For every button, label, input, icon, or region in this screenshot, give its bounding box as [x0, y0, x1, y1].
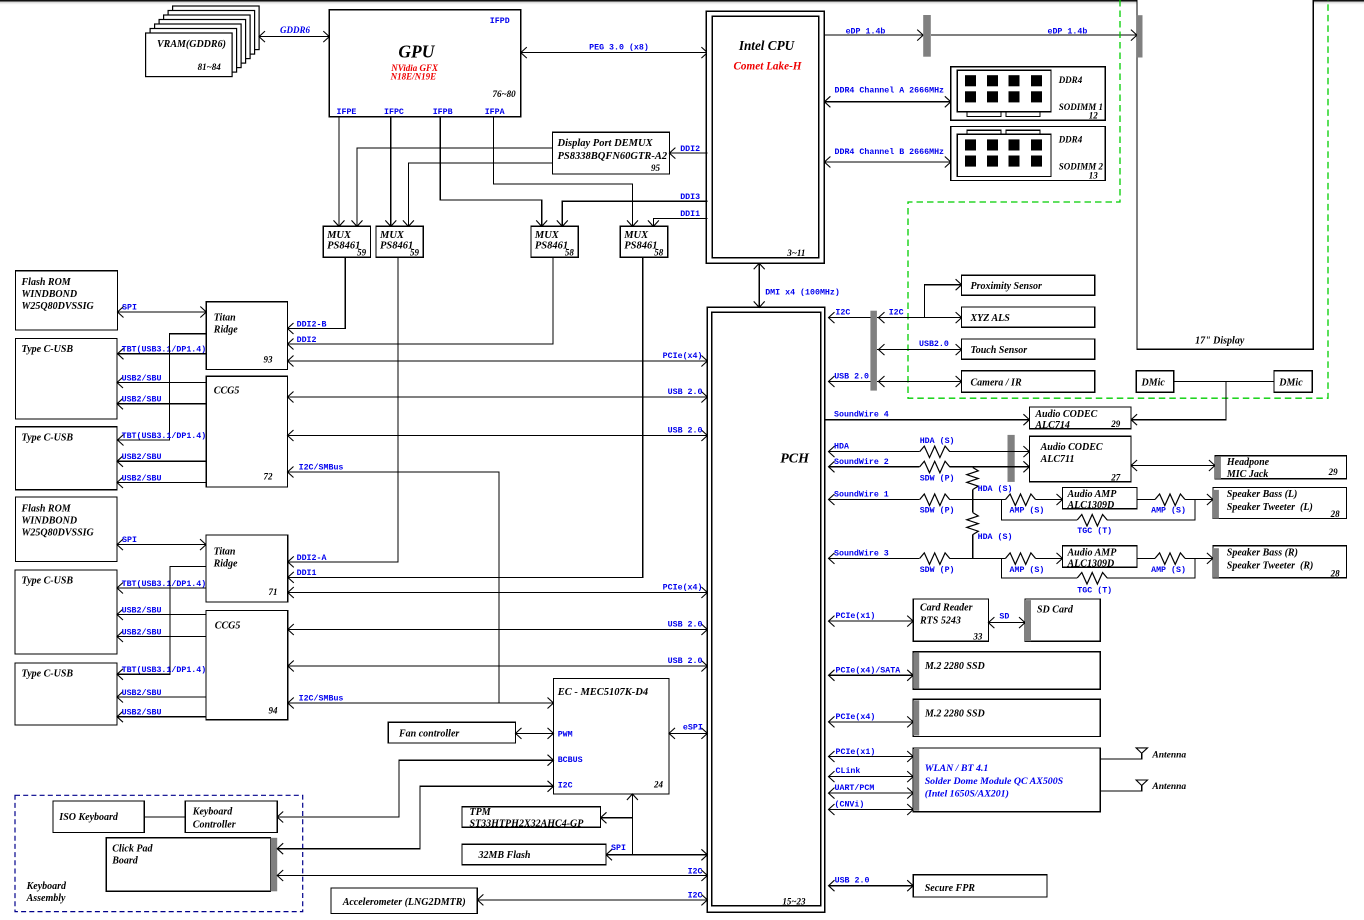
svg-text:PCIe(x1): PCIe(x1)	[836, 747, 876, 757]
wire AudioAMP L-Speaker L with resistor AMP (S)	[1137, 494, 1213, 516]
svg-text:Comet Lake-H: Comet Lake-H	[733, 61, 801, 73]
wire DDI1 MUX4 to Titan Ridge 2	[288, 257, 643, 583]
svg-text:Type C-USB: Type C-USB	[22, 432, 74, 443]
wire DDR4 Channel B 2666MHz	[824, 147, 950, 168]
svg-text:27: 27	[1110, 473, 1121, 483]
svg-text:USB2/SBU: USB2/SBU	[122, 688, 162, 698]
wire TBT(USB3.1/DP1.4) TypeC3-TitanRidge2	[117, 579, 206, 594]
svg-text:IFPB: IFPB	[433, 108, 453, 117]
wire SoundWire 4 PCH-ALC714	[825, 409, 1030, 425]
svg-text:SoundWire 3: SoundWire 3	[834, 548, 889, 558]
Proximity Sensor	[962, 275, 1095, 295]
svg-text:I2C: I2C	[688, 867, 703, 876]
svg-text:WLAN / BT 4.1: WLAN / BT 4.1	[925, 763, 989, 774]
svg-text:DMic: DMic	[1141, 378, 1166, 389]
connector bar eDP	[923, 15, 931, 57]
svg-text:PWM: PWM	[558, 730, 573, 739]
svg-text:17" Display: 17" Display	[1195, 336, 1245, 347]
svg-text:Speaker Tweeter (R): Speaker Tweeter (R)	[1227, 560, 1314, 571]
svg-text:SDW (P): SDW (P)	[920, 565, 955, 575]
svg-text:33: 33	[972, 632, 983, 642]
svg-text:Flash ROM: Flash ROM	[21, 277, 72, 288]
svg-text:USB 2.0: USB 2.0	[668, 426, 703, 435]
MUX PS8461 #1 59	[323, 226, 370, 257]
Titan Ridge 1 93	[206, 302, 287, 370]
wire TBT(USB3.1/DP1.4) TypeC4-TitanRidge2	[117, 567, 206, 680]
Display Port DEMUX PS8338BQFN60GTR-A2 95	[553, 132, 670, 174]
svg-text:TBT(USB3.1/DP1.4): TBT(USB3.1/DP1.4)	[122, 665, 207, 675]
connector bar display eDP	[1137, 15, 1143, 57]
wire DDI2-A MUX2 to Titan Ridge 2	[288, 257, 398, 567]
wire SoundWire 3 PCH-AudioAMP R with resistors	[829, 548, 1063, 574]
svg-text:N18E/N19E: N18E/N19E	[390, 72, 437, 82]
GPU NVidia GFX N18E/N19E 76~80	[329, 10, 521, 117]
wire DDI2-B MUX1 to Titan Ridge 1	[288, 257, 346, 334]
wire HDA PCH-ALC711 with resistor HDA (S)	[829, 436, 1030, 457]
Speaker Bass (R) Speaker Tweeter (R) 28	[1213, 546, 1347, 579]
svg-text:DDR4 Channel A 2666MHz: DDR4 Channel A 2666MHz	[835, 86, 945, 96]
svg-text:TGC (T): TGC (T)	[1077, 526, 1112, 536]
svg-text:12: 12	[1089, 111, 1099, 121]
svg-text:TPM: TPM	[470, 807, 492, 818]
Audio AMP ALC1309D left	[1063, 488, 1138, 512]
wire PCIe(x4) TitanRidge1-PCH	[288, 351, 708, 367]
wire I2C Click Pad-PCH	[277, 867, 707, 881]
svg-text:ALC1309D: ALC1309D	[1067, 558, 1115, 569]
display assembly dashed enclosure	[908, 0, 1328, 398]
wire USB2/SBU TypeC2-CCG5 a	[117, 452, 206, 467]
svg-text:I2C: I2C	[835, 308, 850, 317]
svg-text:SD: SD	[999, 613, 1009, 622]
Accelerometer (LNG2DMTR)	[331, 888, 477, 914]
svg-text:(CNVi): (CNVi)	[835, 800, 865, 810]
Fan controller	[388, 722, 515, 743]
svg-text:PCIe(x1): PCIe(x1)	[836, 611, 876, 621]
wire IFPE to MUX1	[338, 117, 340, 227]
svg-text:MUX: MUX	[379, 230, 405, 241]
svg-text:Keyboard: Keyboard	[192, 806, 233, 817]
Flash ROM WINDBOND W25Q80DVSSIG #2	[15, 497, 117, 562]
wire UART/PCM PCH-WLAN	[829, 783, 914, 799]
svg-text:VRAM(GDDR6): VRAM(GDDR6)	[157, 39, 226, 50]
Titan Ridge 2 71	[206, 535, 288, 602]
svg-text:PCH: PCH	[780, 451, 810, 466]
svg-text:Type C-USB: Type C-USB	[22, 576, 74, 587]
svg-text:13: 13	[1089, 170, 1099, 180]
17 inch Display panel	[1137, 0, 1313, 349]
svg-text:USB 2.0: USB 2.0	[835, 876, 870, 885]
svg-text:DDI3: DDI3	[680, 193, 700, 202]
svg-text:15~23: 15~23	[782, 896, 806, 906]
wire USB2/SBU TypeC3-CCG5-2 a	[117, 605, 206, 620]
antenna 1	[1100, 748, 1186, 760]
Audio AMP ALC1309D right	[1063, 546, 1138, 570]
svg-text:SPI: SPI	[122, 303, 137, 312]
svg-text:SDW (P): SDW (P)	[920, 474, 955, 484]
wire DMic pair to Audio CODEC ALC714	[1131, 382, 1274, 426]
svg-text:Proximity Sensor: Proximity Sensor	[971, 281, 1043, 292]
svg-text:AMP (S): AMP (S)	[1151, 565, 1186, 575]
svg-text:TBT(USB3.1/DP1.4): TBT(USB3.1/DP1.4)	[122, 345, 207, 355]
svg-text:RTS 5243: RTS 5243	[919, 615, 961, 626]
wire IFPB to MUX3	[440, 117, 542, 227]
wire BCBUS Keyboard Controller-EC	[277, 755, 553, 823]
svg-text:Assembly: Assembly	[26, 893, 66, 904]
window top border	[0, 0, 1364, 2]
TPM ST33HTPH2X32AHC4-GP	[462, 807, 601, 830]
svg-text:Accelerometer (LNG2DMTR): Accelerometer (LNG2DMTR)	[342, 897, 466, 908]
svg-text:AMP (S): AMP (S)	[1151, 506, 1186, 516]
svg-text:PS8461: PS8461	[380, 241, 413, 252]
svg-text:Headpone: Headpone	[1226, 457, 1270, 468]
svg-text:PCIe(x4): PCIe(x4)	[663, 582, 703, 592]
wire PWM Fan controller-EC	[516, 732, 554, 734]
svg-text:SPI: SPI	[611, 844, 626, 853]
wire eSPI EC-PCH	[669, 723, 707, 739]
svg-text:I2C/SMBus: I2C/SMBus	[299, 463, 344, 473]
wire USB 2.0 CCG5-2-PCH b	[288, 657, 708, 672]
svg-text:Keyboard: Keyboard	[26, 881, 67, 892]
svg-text:BCBUS: BCBUS	[558, 756, 583, 765]
Keyboard Controller	[185, 801, 277, 832]
svg-text:59: 59	[357, 248, 367, 258]
svg-text:DDI2: DDI2	[297, 336, 317, 345]
wire CLink PCH-WLAN	[829, 766, 914, 782]
Secure FPR	[913, 875, 1047, 897]
wire I2C Click Pad-EC	[277, 781, 553, 854]
svg-text:GPU: GPU	[398, 41, 435, 61]
wire USB2.0 Touch Sensor	[877, 340, 962, 355]
antenna 2	[1100, 780, 1186, 792]
wire eDP 1.4b CPU to connector	[824, 27, 923, 41]
Keyboard Assembly dashed enclosure	[15, 795, 303, 911]
svg-text:USB 2.0: USB 2.0	[668, 657, 703, 666]
wire I2C/SMBus CCG5-2 to EC	[288, 693, 554, 708]
svg-text:Card Reader: Card Reader	[920, 603, 973, 614]
wire SPI Flash2-TitanRidge2	[117, 536, 206, 550]
svg-text:SoundWire 1: SoundWire 1	[834, 489, 889, 499]
Headpone MIC Jack 29	[1215, 456, 1347, 480]
svg-text:DMic: DMic	[1278, 378, 1303, 389]
svg-text:I2C: I2C	[558, 782, 573, 791]
svg-text:DDR4: DDR4	[1058, 75, 1083, 85]
svg-text:Antenna: Antenna	[1151, 750, 1186, 760]
wire USB2/SBU TypeC4-CCG5-2 a	[117, 688, 206, 703]
wire ALC711-Headpone jack	[1131, 465, 1215, 467]
Audio CODEC ALC714 29	[1029, 407, 1131, 431]
wire (CNVi) PCH-WLAN	[829, 800, 914, 815]
svg-text:USB 2.0: USB 2.0	[668, 388, 703, 397]
wire USB 2.0 PCH-Secure FPR	[829, 876, 914, 891]
svg-text:93: 93	[264, 355, 274, 365]
svg-text:Solder Dome Module QC AX500S: Solder Dome Module QC AX500S	[925, 776, 1064, 787]
svg-text:eDP 1.4b: eDP 1.4b	[1047, 27, 1087, 37]
wire PCIe(x4)/SATA PCH-SSD1	[829, 666, 914, 681]
Intel CPU Comet Lake-H 3~11	[706, 11, 824, 263]
M.2 2280 SSD #2	[913, 699, 1100, 736]
wire SPI EC-TPM-32MB Flash-PCH	[601, 794, 708, 860]
svg-text:29: 29	[1110, 419, 1121, 429]
wire DDI3 CPU to MUX3	[557, 193, 708, 226]
svg-text:USB2/SBU: USB2/SBU	[122, 627, 162, 637]
wire SoundWire 2 PCH-ALC711 with resistor SDW (P)	[829, 457, 1030, 484]
svg-text:PS8461: PS8461	[327, 241, 360, 252]
Type C-USB port 1	[15, 339, 117, 420]
svg-text:M.2 2280 SSD: M.2 2280 SSD	[924, 709, 985, 720]
wire PEG 3.0 (x8) GPU-CPU	[521, 42, 708, 58]
wire HDA (S) vertical with resistors	[967, 467, 1013, 559]
wire USB 2.0 Camera/IR	[829, 372, 962, 387]
connector bar ALC711	[1008, 435, 1015, 482]
wire USB 2.0 CCG5-1-PCH b	[288, 426, 708, 441]
svg-text:M.2 2280 SSD: M.2 2280 SSD	[924, 661, 985, 672]
svg-text:Type C-USB: Type C-USB	[22, 344, 74, 355]
Type C-USB port 3	[15, 570, 117, 654]
DMic right	[1274, 371, 1312, 392]
svg-text:IFPC: IFPC	[384, 108, 404, 117]
wire IFPA to MUX4	[493, 117, 632, 227]
DMic left	[1136, 371, 1174, 392]
EC - MEC5107K-D4 24	[554, 679, 670, 795]
wire DEMUX out to MUX1	[357, 148, 553, 227]
svg-text:Audio AMP: Audio AMP	[1067, 547, 1118, 558]
svg-text:USB2/SBU: USB2/SBU	[122, 605, 162, 615]
svg-text:AMP (S): AMP (S)	[1010, 506, 1045, 516]
svg-text:PS8461: PS8461	[624, 241, 657, 252]
svg-text:WINDBOND: WINDBOND	[22, 289, 78, 300]
PCH 15~23	[707, 307, 825, 912]
svg-text:HDA: HDA	[834, 442, 849, 451]
svg-text:28: 28	[1330, 568, 1341, 578]
svg-text:Camera / IR: Camera / IR	[971, 377, 1022, 388]
wire PCIe(x1) PCH-WLAN	[829, 747, 914, 762]
SD Card	[1025, 599, 1100, 641]
svg-text:Speaker Bass (L): Speaker Bass (L)	[1227, 489, 1298, 500]
svg-text:CCG5: CCG5	[215, 620, 241, 631]
svg-text:CCG5: CCG5	[214, 386, 240, 397]
wire SPI Flash1-TitanRidge1	[118, 303, 207, 317]
svg-text:Audio AMP: Audio AMP	[1067, 489, 1118, 500]
svg-text:MUX: MUX	[326, 230, 352, 241]
svg-text:WINDBOND: WINDBOND	[22, 515, 78, 526]
svg-text:DMI x4 (100MHz): DMI x4 (100MHz)	[765, 287, 840, 297]
svg-text:GDDR6: GDDR6	[280, 25, 311, 35]
svg-text:PEG 3.0 (x8): PEG 3.0 (x8)	[589, 42, 649, 52]
svg-text:58: 58	[565, 248, 575, 258]
MUX PS8461 #3 58	[531, 226, 578, 257]
svg-text:ALC711: ALC711	[1040, 454, 1075, 465]
svg-text:I2C: I2C	[889, 308, 904, 317]
svg-text:PCIe(x4): PCIe(x4)	[836, 712, 876, 722]
wire SD Card Reader-SD Card	[988, 613, 1025, 629]
wire SoundWire 1 PCH-AudioAMP L with resistors	[829, 489, 1063, 515]
svg-text:58: 58	[654, 248, 664, 258]
svg-text:MIC Jack: MIC Jack	[1226, 469, 1268, 480]
wire I2C Accelerometer-PCH	[477, 891, 707, 905]
svg-text:PS8461: PS8461	[535, 241, 568, 252]
wire DDI2 MUX3 to Titan Ridge 1	[288, 257, 554, 349]
wire I2C/SMBus CCG5-1 to EC	[288, 463, 500, 703]
svg-text:CLink: CLink	[836, 766, 861, 776]
svg-text:TBT(USB3.1/DP1.4): TBT(USB3.1/DP1.4)	[122, 431, 207, 441]
svg-text:DDR4 Channel B 2666MHz: DDR4 Channel B 2666MHz	[835, 147, 945, 157]
Type C-USB port 2	[15, 427, 117, 490]
svg-text:eDP 1.4b: eDP 1.4b	[846, 27, 886, 37]
svg-text:Touch Sensor: Touch Sensor	[971, 345, 1028, 356]
wire USB2/SBU TypeC1-CCG5 b	[117, 395, 206, 410]
svg-text:Intel CPU: Intel CPU	[738, 38, 796, 53]
connector bar sensors I2C	[870, 311, 877, 391]
DDR4 SODIMM 2 module 13	[951, 126, 1106, 180]
svg-text:Audio CODEC: Audio CODEC	[1034, 409, 1097, 420]
VRAM(GDDR6) stack 81~84	[146, 6, 260, 77]
svg-text:USB 2.0: USB 2.0	[834, 372, 869, 381]
svg-text:ST33HTPH2X32AHC4-GP: ST33HTPH2X32AHC4-GP	[470, 818, 585, 829]
svg-text:Speaker Tweeter (L): Speaker Tweeter (L)	[1227, 502, 1313, 513]
svg-text:IFPE: IFPE	[337, 108, 357, 117]
svg-text:IFPA: IFPA	[485, 108, 505, 117]
svg-text:Fan controller: Fan controller	[398, 728, 459, 739]
wire DDI2 CPU-DEMUX	[669, 145, 707, 159]
wire TBT(USB3.1/DP1.4) TypeC2-TitanRidge1	[118, 334, 207, 446]
wire GDDR6 VRAM-GPU	[259, 25, 329, 42]
svg-text:DDI2: DDI2	[680, 145, 700, 154]
DDR4 SODIMM 1 module 12	[951, 67, 1106, 121]
svg-text:Type C-USB: Type C-USB	[22, 669, 74, 680]
ISO Keyboard	[53, 801, 144, 832]
svg-text:PS8338BQFN60GTR-A2: PS8338BQFN60GTR-A2	[558, 151, 668, 162]
32MB Flash	[462, 844, 606, 865]
CCG5 2 94	[206, 610, 288, 719]
svg-text:PCIe(x4): PCIe(x4)	[663, 351, 703, 361]
svg-text:USB2/SBU: USB2/SBU	[122, 395, 162, 405]
MUX PS8461 #4 58	[620, 226, 667, 257]
svg-text:Secure FPR: Secure FPR	[925, 883, 976, 894]
svg-text:USB2/SBU: USB2/SBU	[122, 473, 162, 483]
wire DMI x4 (100MHz) CPU-PCH	[754, 263, 840, 307]
svg-text:(Intel 1650S/AX201): (Intel 1650S/AX201)	[925, 789, 1009, 800]
svg-text:W25Q80DVSSIG: W25Q80DVSSIG	[22, 527, 95, 538]
svg-text:eSPI: eSPI	[683, 723, 703, 732]
wire USB2/SBU TypeC2-CCG5 b	[117, 473, 206, 488]
svg-text:PCIe(x4)/SATA: PCIe(x4)/SATA	[836, 666, 901, 676]
svg-text:SDW (P): SDW (P)	[920, 506, 955, 516]
wire IFPC to MUX2	[390, 117, 392, 227]
svg-text:ALC714: ALC714	[1034, 420, 1069, 431]
Type C-USB port 4	[15, 663, 117, 725]
wire PCIe(x1) PCH-Card Reader	[829, 611, 914, 627]
svg-text:SoundWire 4: SoundWire 4	[834, 409, 889, 419]
svg-text:MUX: MUX	[623, 230, 649, 241]
svg-text:Controller: Controller	[193, 819, 236, 830]
svg-text:DDI2-A: DDI2-A	[297, 554, 327, 563]
wire PCIe(x4) TitanRidge2-PCH	[288, 582, 708, 598]
M.2 2280 SSD #1	[913, 652, 1100, 690]
svg-text:SD Card: SD Card	[1037, 605, 1074, 616]
wire USB 2.0 CCG5-1-PCH a	[288, 388, 708, 403]
svg-text:3~11: 3~11	[786, 248, 805, 258]
svg-text:Audio CODEC: Audio CODEC	[1040, 442, 1103, 453]
svg-text:DDI1: DDI1	[680, 210, 700, 219]
wire ISO Keyboard-Keyboard Controller	[144, 816, 185, 818]
svg-text:DDI1: DDI1	[297, 569, 317, 578]
svg-text:76~80: 76~80	[492, 89, 516, 99]
svg-text:Board: Board	[111, 855, 139, 866]
Flash ROM WINDBOND W25Q80DVSSIG #1	[15, 271, 117, 330]
wire USB2/SBU TypeC3-CCG5-2 b	[117, 627, 206, 642]
svg-text:71: 71	[269, 587, 278, 597]
svg-text:32MB Flash: 32MB Flash	[478, 850, 531, 861]
svg-text:Ridge: Ridge	[213, 559, 238, 570]
CCG5 1 72	[206, 376, 287, 487]
Camera / IR	[962, 371, 1095, 392]
svg-text:Titan: Titan	[214, 546, 236, 557]
svg-text:24: 24	[653, 780, 664, 790]
WLAN / BT 4.1 Solder Dome Module QC AX500S (Intel 1650S/AX201)	[913, 748, 1100, 812]
svg-text:UART/PCM: UART/PCM	[835, 783, 875, 793]
Click Pad Board	[106, 838, 277, 892]
svg-text:DDR4: DDR4	[1058, 135, 1083, 145]
svg-text:Antenna: Antenna	[1151, 782, 1186, 792]
svg-text:W25Q80DVSSIG: W25Q80DVSSIG	[22, 301, 95, 312]
svg-text:59: 59	[410, 248, 420, 258]
wire I2C PCH-sensors	[829, 279, 962, 323]
svg-text:HDA (S): HDA (S)	[920, 436, 955, 446]
wire PCIe(x4) PCH-SSD2	[829, 712, 914, 727]
svg-text:81~84: 81~84	[198, 62, 222, 72]
svg-text:USB2.0: USB2.0	[919, 340, 949, 349]
svg-text:95: 95	[651, 163, 661, 173]
svg-text:USB 2.0: USB 2.0	[668, 620, 703, 629]
wire TGC (T) loop right with resistor	[1002, 558, 1196, 595]
wire TGC (T) loop left with resistor	[1002, 500, 1196, 537]
svg-text:29: 29	[1328, 467, 1339, 477]
svg-text:EC - MEC5107K-D4: EC - MEC5107K-D4	[557, 687, 648, 698]
wire USB2/SBU TypeC4-CCG5-2 b	[117, 708, 206, 723]
svg-text:Titan: Titan	[214, 313, 236, 324]
MUX PS8461 #2 59	[376, 226, 423, 257]
svg-text:USB2/SBU: USB2/SBU	[122, 708, 162, 718]
svg-text:Ridge: Ridge	[213, 325, 238, 336]
wire TBT(USB3.1/DP1.4) TypeC1-TitanRidge1	[118, 345, 207, 360]
svg-text:ALC1309D: ALC1309D	[1067, 500, 1115, 511]
svg-text:ISO Keyboard: ISO Keyboard	[58, 812, 119, 823]
svg-text:94: 94	[269, 706, 279, 716]
svg-text:TGC (T): TGC (T)	[1077, 586, 1112, 596]
wire DDI1 CPU to MUX4	[648, 210, 708, 226]
svg-text:HDA (S): HDA (S)	[978, 532, 1013, 542]
svg-text:XYZ ALS: XYZ ALS	[970, 313, 1011, 324]
svg-text:HDA (S): HDA (S)	[978, 484, 1013, 494]
wire DEMUX out to MUX2	[408, 163, 552, 226]
svg-text:DDI2-B: DDI2-B	[297, 320, 327, 329]
svg-text:AMP (S): AMP (S)	[1010, 565, 1045, 575]
svg-text:28: 28	[1330, 509, 1341, 519]
svg-text:72: 72	[264, 472, 274, 482]
Touch Sensor	[962, 339, 1095, 359]
svg-text:Click Pad: Click Pad	[112, 843, 153, 854]
wire eDP 1.4b connector to display	[931, 27, 1137, 41]
wire USB 2.0 CCG5-2-PCH a	[288, 620, 708, 635]
wire AudioAMP R-Speaker R with resistor AMP (S)	[1137, 553, 1213, 575]
svg-text:SoundWire 2: SoundWire 2	[834, 457, 889, 467]
svg-text:Display Port DEMUX: Display Port DEMUX	[557, 138, 654, 149]
wire DDR4 Channel A 2666MHz	[824, 86, 950, 108]
svg-text:I2C/SMBus: I2C/SMBus	[299, 693, 344, 703]
Card Reader RTS 5243 33	[913, 599, 988, 641]
svg-text:Flash ROM: Flash ROM	[21, 503, 72, 514]
Speaker Bass (L) Speaker Tweeter (L) 28	[1213, 488, 1347, 520]
